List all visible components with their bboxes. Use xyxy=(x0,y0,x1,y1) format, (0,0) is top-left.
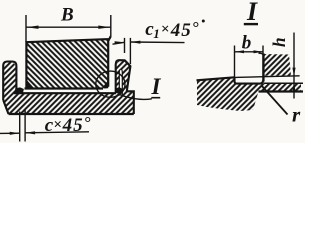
groove blob at block bottom-left corner xyxy=(27,80,34,88)
block bottom edge xyxy=(25,87,104,89)
groove blob at block bottom-right corner xyxy=(102,80,108,88)
groove blob at left lip junction xyxy=(15,87,24,92)
detail groove mouth line xyxy=(235,76,300,78)
dimension c1 arrows and leaders xyxy=(113,42,185,44)
detail lower material hatch xyxy=(197,77,301,111)
dimension c arrows and leaders xyxy=(0,132,89,134)
svg-text:h: h xyxy=(269,37,289,47)
plate left diagonal cut xyxy=(3,100,8,114)
svg-text:b: b xyxy=(242,33,252,54)
right lip chamfer c1 xyxy=(125,60,131,66)
block section hatch xyxy=(26,36,110,88)
detail shoulder face xyxy=(262,54,264,82)
detail groove outline xyxy=(235,77,264,83)
svg-text:I: I xyxy=(151,74,162,99)
plate bottom edge xyxy=(9,113,134,115)
right lip outline xyxy=(116,60,131,92)
leader to label I xyxy=(122,95,152,99)
h lower extension line xyxy=(264,82,304,84)
scan speck xyxy=(202,20,205,23)
svg-text:B: B xyxy=(60,4,74,25)
dimension b extension lines xyxy=(235,46,264,79)
dimension b line with arrows xyxy=(235,51,264,53)
right lip curl slot xyxy=(119,69,122,95)
plate right edge xyxy=(127,91,134,114)
leader r xyxy=(262,86,288,115)
left lip outline xyxy=(3,62,16,101)
groove blob at right lip junction xyxy=(116,87,124,93)
block outline xyxy=(26,36,110,88)
bottom face line xyxy=(259,90,304,92)
dimension h line xyxy=(293,33,295,99)
svg-text:r: r xyxy=(292,103,301,127)
dimension B extension lines xyxy=(26,15,111,42)
plate top surface xyxy=(14,92,116,94)
dimension c1 extension ticks xyxy=(125,38,131,64)
dimension B line with arrows xyxy=(26,26,111,28)
svg-text:I: I xyxy=(246,0,258,26)
plate section hatch xyxy=(3,60,134,114)
svg-text:c1×45°: c1×45° xyxy=(145,18,199,41)
detail shoulder hatch xyxy=(264,54,292,76)
detail surface line left xyxy=(197,77,235,80)
dimension c extension ticks xyxy=(20,110,25,142)
detail circle xyxy=(96,71,125,97)
detail shoulder face top hook xyxy=(259,53,264,54)
